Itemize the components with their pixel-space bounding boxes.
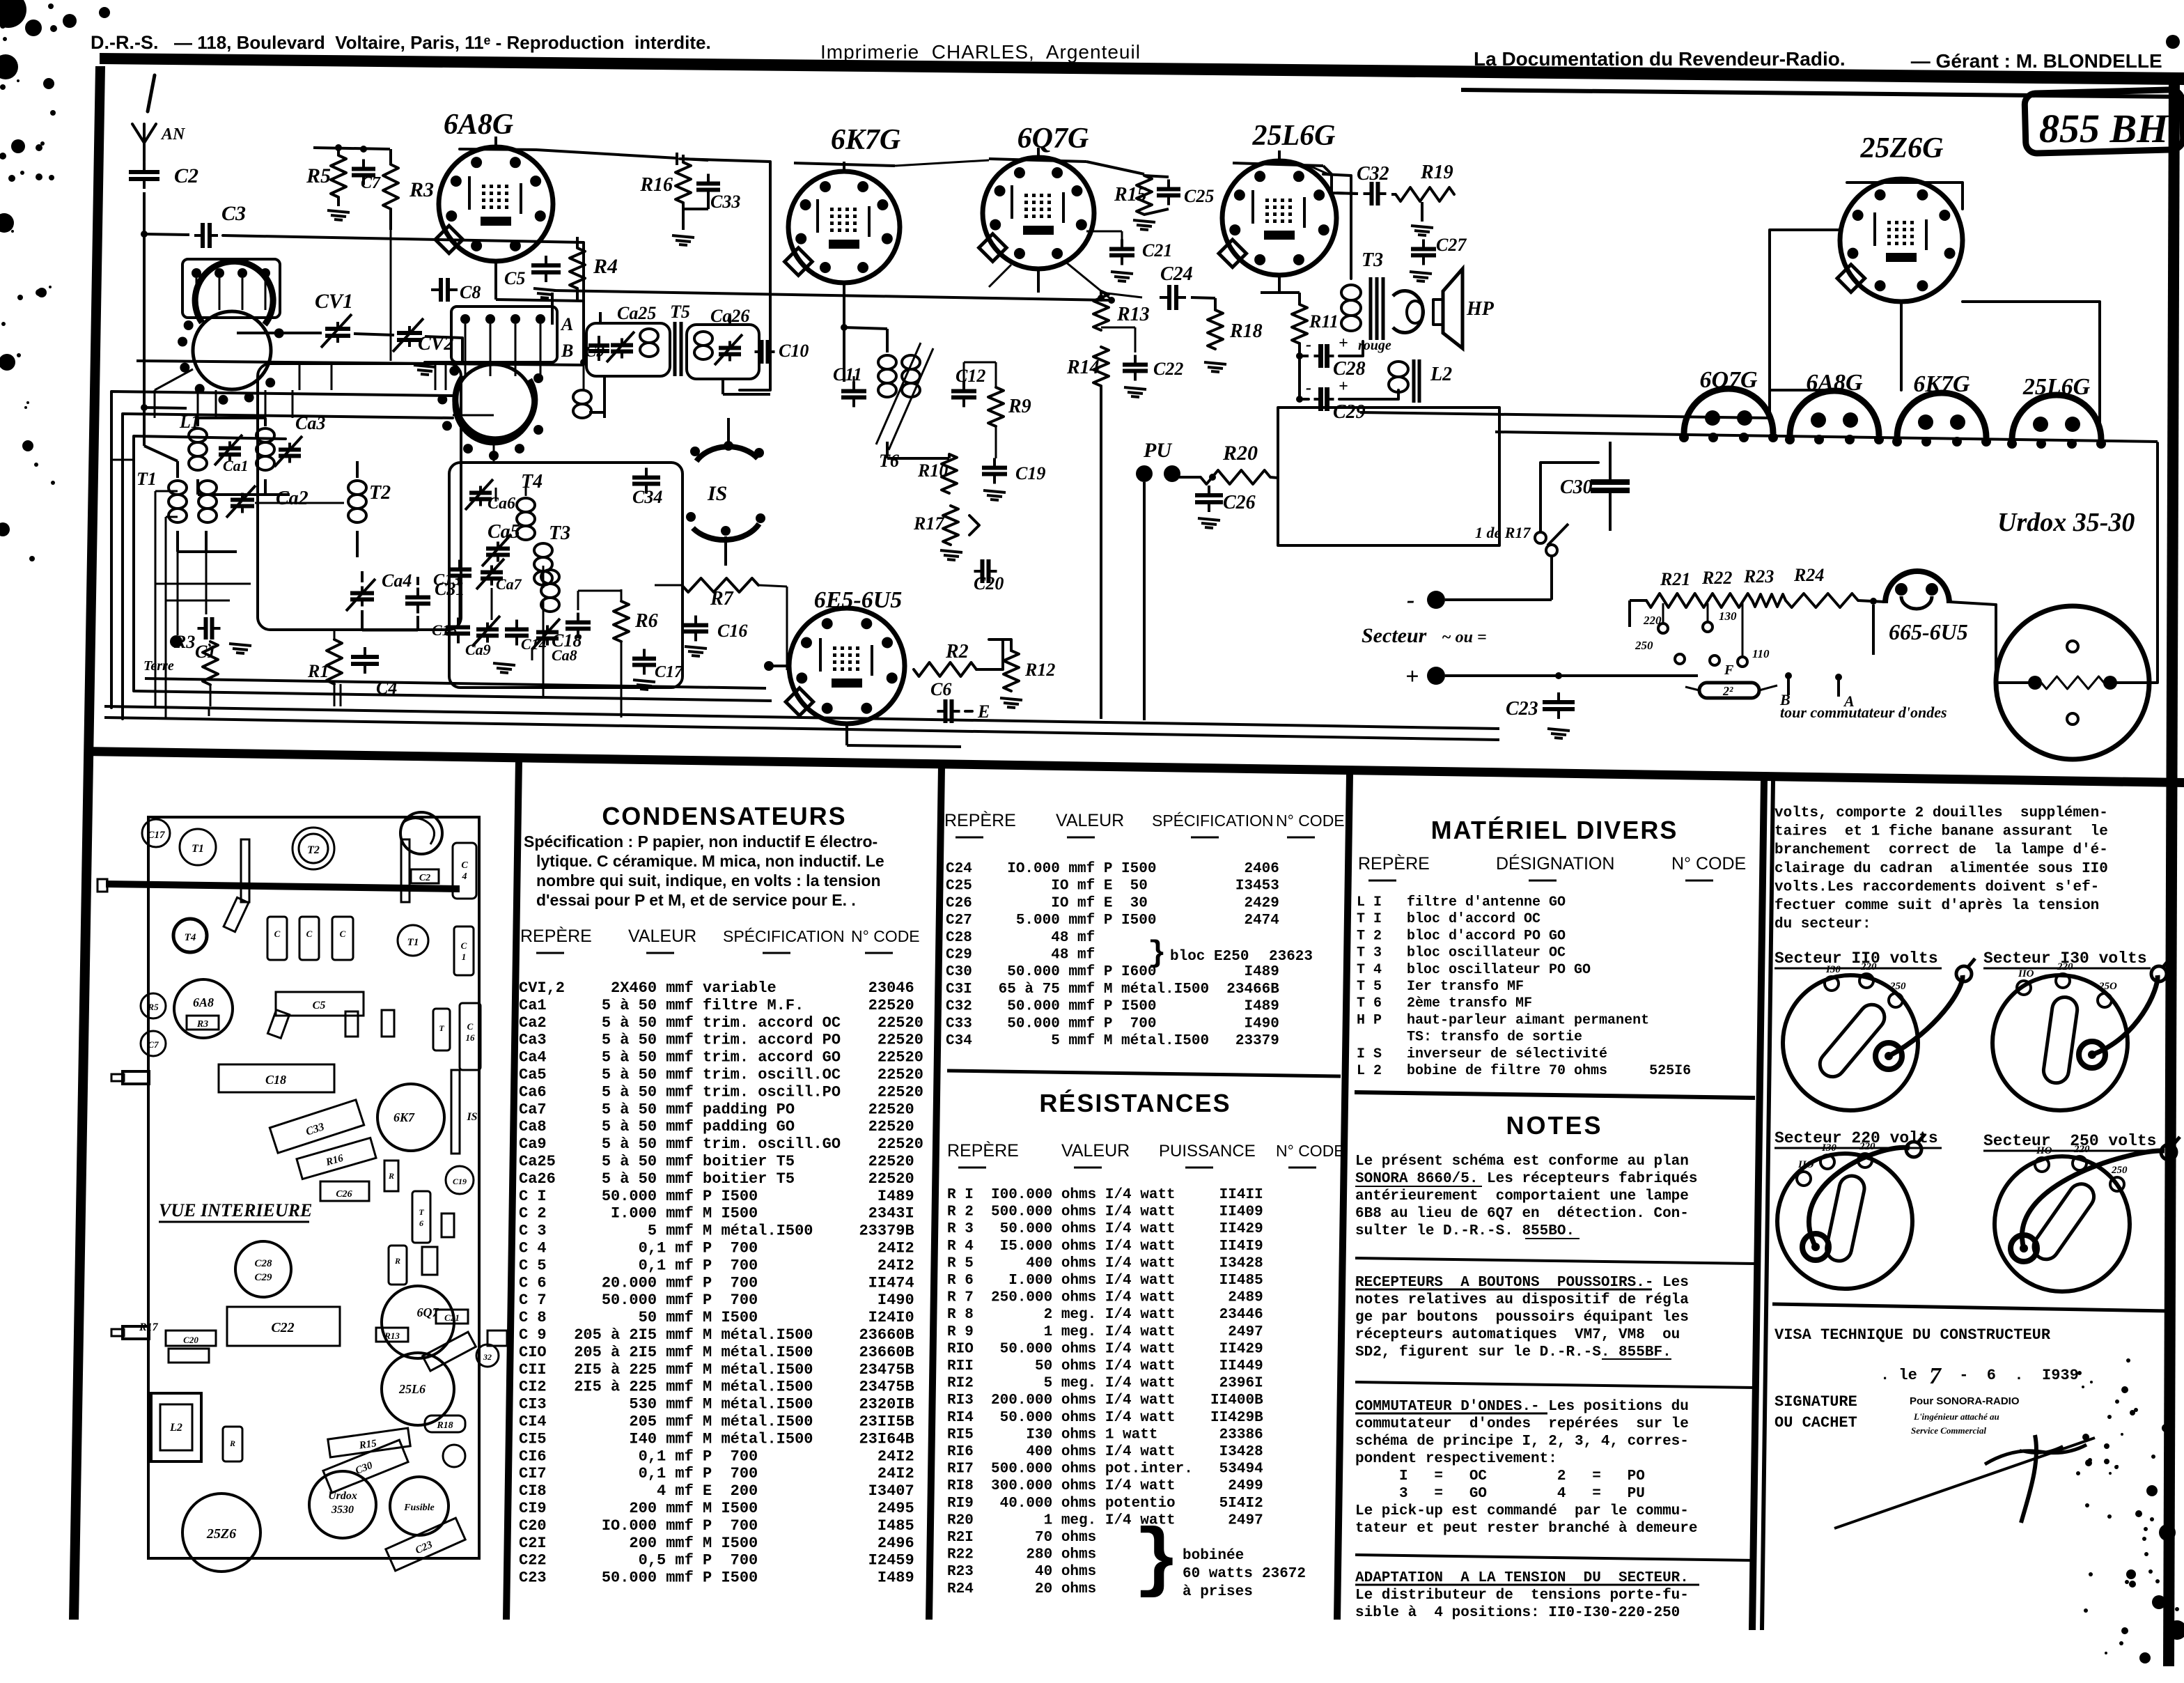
svg-text:C28: C28 — [1333, 358, 1366, 380]
svg-text:Ca7: Ca7 — [496, 575, 522, 593]
chassis box C15 — [332, 917, 353, 960]
svg-text:Ca26 5 à 50 mmf boitier T5: Ca26 5 à 50 mmf boitier T5 22520 — [519, 1170, 914, 1188]
svg-text:- 6 . I939: - 6 . I939 — [1950, 1367, 2079, 1384]
svg-text:220: 220 — [2057, 961, 2073, 972]
chassis circle T4 — [173, 919, 207, 952]
chassis circle R5 — [141, 993, 166, 1018]
chassis plug stub 2 — [123, 1326, 149, 1339]
svg-text:220: 220 — [1860, 961, 1877, 972]
tube 6E5-6U5 detector eye — [789, 608, 905, 724]
resistor R2 — [914, 662, 976, 676]
chassis circle CA small — [443, 1445, 465, 1467]
svg-text:C29: C29 — [254, 1272, 272, 1283]
svg-text:B: B — [561, 341, 573, 361]
chassis circle 6A8 — [174, 979, 233, 1038]
ground C26 — [1198, 518, 1220, 520]
svg-text:RI5 I30 ohms 1 watt: RI5 I30 ohms 1 watt 23386 — [947, 1427, 1263, 1443]
svg-text:C19: C19 — [1015, 463, 1045, 483]
tube 25Z6G — [1840, 179, 1963, 302]
chassis box R16 tilted — [297, 1138, 376, 1179]
svg-text:250: 250 — [1889, 981, 1906, 992]
svg-text:C26: C26 — [1223, 492, 1256, 513]
svg-text:CI7 0,1 mf P 700: CI7 0,1 mf P 700 24I2 — [519, 1465, 914, 1482]
wire B A down — [1872, 605, 1875, 655]
svg-text:commutateur d'ondes repérées: commutateur d'ondes repérées sur le — [1355, 1416, 1689, 1432]
svg-text:C30 50.000 mmf P I600: C30 50.000 mmf P I600 I489 — [946, 964, 1279, 980]
svg-text:CVI,2 2X460 mmf variable: CVI,2 2X460 mmf variable 23046 — [519, 979, 914, 997]
svg-text:16: 16 — [466, 1032, 476, 1043]
capacitor C32 — [1364, 192, 1372, 195]
wire L1 row top — [198, 417, 265, 419]
chassis plug stub 1 — [123, 1071, 149, 1084]
svg-text:taires et 1 fiche banane assu: taires et 1 fiche banane assurant le — [1774, 824, 2108, 840]
column divider 3 — [1334, 775, 1353, 1620]
ground R15 — [1133, 220, 1155, 222]
svg-text:C32: C32 — [1357, 163, 1389, 185]
svg-text:R3: R3 — [409, 178, 434, 201]
svg-text:DÉSIGNATION: DÉSIGNATION — [1496, 853, 1614, 874]
capacitor C15 — [457, 618, 460, 628]
svg-text:R3: R3 — [196, 1019, 208, 1030]
svg-text:T1: T1 — [407, 937, 419, 948]
svg-text:C18: C18 — [265, 1073, 286, 1087]
svg-text:C24 IO.000 mmf P I500: C24 IO.000 mmf P I500 2406 — [946, 861, 1279, 877]
ground C16 — [685, 646, 707, 649]
capacitor C13b — [458, 560, 461, 570]
svg-text:R19: R19 — [1420, 162, 1453, 183]
scan noise specks — [0, 0, 26, 28]
svg-text:C7: C7 — [148, 1039, 159, 1050]
output transformer T3 — [1341, 285, 1361, 300]
wire 6K7G grid cap — [843, 162, 845, 171]
resistor R14 — [1093, 347, 1109, 386]
wire C24 to R18 — [1191, 297, 1215, 298]
svg-text:Le distributeur de tensions p: Le distributeur de tensions porte-fu- — [1355, 1588, 1689, 1604]
svg-text:6A8G: 6A8G — [1806, 370, 1863, 396]
ground R5 — [327, 210, 350, 212]
capacitor C27 — [1422, 240, 1425, 249]
chassis circle T1b — [398, 925, 428, 956]
svg-text:REPÈRE: REPÈRE — [947, 1140, 1019, 1161]
svg-text:I S inverseur de sélectivité: I S inverseur de sélectivité — [1357, 1046, 1649, 1062]
dial secteur 250 volts — [1995, 1156, 2130, 1292]
svg-text:C 5 0,1 mf P 700: C 5 0,1 mf P 700 24I2 — [519, 1257, 914, 1274]
svg-text:C20: C20 — [974, 573, 1004, 594]
svg-text:C21: C21 — [1142, 240, 1172, 261]
svg-text:Ca1 5 à 50 mmf filtre M.F: Ca1 5 à 50 mmf filtre M.F. 22520 — [519, 997, 914, 1014]
svg-text:Le pick-up est commandé par l: Le pick-up est commandé par le commu- — [1355, 1503, 1689, 1519]
capacitor C6 — [937, 710, 946, 713]
dial bar — [106, 881, 460, 892]
IF transformer T5 box left — [586, 323, 670, 376]
svg-text:R4: R4 — [593, 255, 618, 278]
tube 6Q7G — [983, 157, 1094, 269]
svg-text:N° CODE: N° CODE — [1276, 1142, 1345, 1160]
svg-text:Urdox 35-30: Urdox 35-30 — [1997, 508, 2135, 537]
wire Ca4 leads — [361, 571, 364, 582]
svg-text:250: 250 — [2111, 1165, 2128, 1176]
svg-text:23672: 23672 — [1262, 1566, 1306, 1582]
wire lamp to urdox — [1949, 602, 1996, 605]
terminal minus — [1427, 591, 1445, 609]
rule notes 3 — [1355, 1555, 1755, 1560]
svg-text:d'essai pour P et M, et de ser: d'essai pour P et M, et de service pour … — [536, 891, 856, 909]
svg-text:R 6 I.000 ohms I/4 watt: R 6 I.000 ohms I/4 watt II485 — [947, 1273, 1263, 1289]
ground C17 — [633, 680, 655, 682]
wire left inner verticals — [155, 491, 157, 706]
ground padder — [493, 663, 515, 665]
wire C22 top — [1134, 327, 1137, 352]
svg-text:Ca1: Ca1 — [223, 457, 249, 474]
wire T6 bottom — [886, 442, 889, 458]
svg-text:SPÉCIFICATION: SPÉCIFICATION — [723, 927, 845, 945]
capacitor C4 — [364, 647, 366, 657]
svg-text:C3I 65 à 75 mmf M métal.I500: C3I 65 à 75 mmf M métal.I500 23466B — [946, 982, 1279, 998]
svg-text:RI9 40.000 ohms potentio: RI9 40.000 ohms potentio 5I4I2 — [947, 1496, 1263, 1512]
svg-text:R2: R2 — [945, 641, 969, 662]
wire bottom rail 2 — [104, 718, 1499, 740]
chassis box C5 — [276, 992, 364, 1016]
svg-text:C: C — [340, 929, 346, 939]
resistor R20 — [1201, 470, 1270, 484]
svg-text:N° CODE: N° CODE — [1276, 812, 1345, 830]
svg-text:~ ou =: ~ ou = — [1442, 628, 1487, 646]
chassis circle 25Z6 — [182, 1494, 260, 1572]
svg-text:L2: L2 — [1430, 364, 1452, 385]
svg-text:tateur et peut rester branché: tateur et peut rester branché à demeure — [1355, 1521, 1697, 1537]
wire sw1 left leads — [155, 369, 193, 390]
capacitor C28 electrolytic — [1314, 355, 1321, 357]
svg-text:C6: C6 — [930, 679, 951, 699]
chassis box R18 — [425, 1416, 465, 1432]
svg-text:T 6 2ème transfo MF: T 6 2ème transfo MF — [1357, 995, 1649, 1011]
svg-text:Spécification : P papier, non: Spécification : P papier, non inductif E… — [524, 832, 877, 851]
pilot lamp 6E5-6U5 — [1885, 571, 1949, 603]
svg-text:C25 IO mf E 50: C25 IO mf E 50 I3453 — [946, 878, 1279, 894]
svg-text:R18: R18 — [436, 1420, 453, 1431]
svg-text:REPÈRE: REPÈRE — [520, 926, 592, 946]
svg-text:E: E — [977, 701, 990, 722]
svg-text:volts.Les raccordements doiven: volts.Les raccordements doivent s'ef- — [1774, 879, 2099, 895]
svg-text:I = OC 2 = PO: I = OC 2 = PO — [1355, 1468, 1645, 1484]
coil with trimmer Ca3 — [256, 428, 274, 442]
svg-text:R6: R6 — [634, 610, 658, 632]
svg-text:CI5 I40 mmf M métal.I5: CI5 I40 mmf M métal.I500 23I64B — [519, 1430, 914, 1448]
svg-text:R22: R22 — [1701, 568, 1732, 588]
rule above resistances — [947, 1071, 1341, 1076]
svg-text:R10: R10 — [917, 460, 948, 481]
svg-text:-: - — [1407, 587, 1414, 613]
wire antenna down — [143, 192, 146, 446]
tube 25L6G — [1222, 161, 1336, 275]
wire loop rectangle — [1278, 408, 1499, 545]
svg-text:C21: C21 — [444, 1312, 460, 1323]
svg-text:C26: C26 — [336, 1189, 352, 1200]
svg-text:-: - — [1306, 336, 1311, 354]
svg-text:+: + — [1339, 378, 1348, 396]
resistor R7 — [682, 578, 758, 592]
svg-text:MATÉRIEL DIVERS: MATÉRIEL DIVERS — [1431, 816, 1678, 844]
svg-text:1: 1 — [462, 952, 467, 962]
svg-text:R20 1 meg. I/4 watt: R20 1 meg. I/4 watt 2497 — [947, 1512, 1263, 1528]
rule notes 1 — [1355, 1258, 1755, 1264]
wire minus — [1445, 598, 1552, 601]
ground R16 — [672, 235, 694, 238]
svg-text:C: C — [461, 940, 467, 951]
wire C1 R3 stack — [209, 644, 210, 646]
svg-text:6: 6 — [419, 1218, 423, 1228]
svg-text:R 3 50.000 ohms I/4 watt: R 3 50.000 ohms I/4 watt II429 — [947, 1221, 1263, 1237]
svg-text:ge par boutons poussoirs équi: ge par boutons poussoirs équipant les — [1355, 1310, 1689, 1326]
svg-text:RÉSISTANCES: RÉSISTANCES — [1039, 1089, 1231, 1117]
wire CV row — [237, 332, 322, 334]
wire urdox — [1996, 605, 2035, 683]
svg-text:130: 130 — [1719, 610, 1737, 623]
svg-text:Ca5 5 à 50 mmf trim. osci: Ca5 5 à 50 mmf trim. oscill.OC 22520 — [519, 1067, 923, 1084]
chassis box C30 tilted — [323, 1440, 408, 1493]
svg-text:C34 5 mmf M métal.I500: C34 5 mmf M métal.I500 23379 — [946, 1033, 1279, 1049]
wire y596 stub — [453, 414, 494, 417]
svg-text:Ca25: Ca25 — [617, 303, 656, 323]
svg-text:IS: IS — [466, 1111, 477, 1123]
svg-text:110: 110 — [1752, 647, 1770, 660]
trimmer in T5 — [621, 339, 623, 346]
ground C1 — [229, 644, 251, 646]
svg-text:T5: T5 — [670, 302, 690, 322]
resistor R18 — [1208, 310, 1223, 349]
svg-text:Ca7 5 à 50 mmf padding PO: Ca7 5 à 50 mmf padding PO 22520 — [519, 1101, 914, 1118]
svg-text:32: 32 — [483, 1352, 492, 1362]
chassis box R10 — [389, 1246, 407, 1285]
svg-text:N° CODE: N° CODE — [851, 927, 920, 945]
resistor chain R21 R22 R23 R24 — [1646, 594, 1699, 607]
svg-text:I30: I30 — [1821, 1142, 1836, 1154]
trimmer Ca2 — [241, 493, 244, 500]
svg-text:IIO: IIO — [2036, 1145, 2052, 1156]
wire T2 leads — [356, 461, 359, 478]
svg-text:C17: C17 — [655, 663, 683, 681]
svg-text:C23: C23 — [1506, 698, 1538, 720]
svg-text:R15: R15 — [1114, 184, 1147, 205]
top rule echo right — [1461, 88, 2184, 99]
svg-text:Ca6: Ca6 — [487, 495, 515, 513]
wire T1 bottom — [176, 531, 179, 552]
capacitor C14 — [515, 620, 518, 630]
wire 6A8 to IF — [494, 261, 497, 300]
wire R9 C19 — [995, 426, 997, 458]
svg-text:6K7G: 6K7G — [1913, 371, 1970, 397]
ground C22 — [1124, 387, 1146, 389]
trimmer CV2 — [408, 326, 411, 333]
capacitor C30 — [1609, 468, 1612, 482]
svg-text:T I bloc d'accord OC: T I bloc d'accord OC — [1357, 911, 1649, 927]
chassis circle urdox — [309, 1471, 376, 1538]
wire antenna sw1 — [144, 408, 187, 408]
wire R1 leads — [334, 630, 336, 639]
svg-text:R9: R9 — [1008, 396, 1031, 417]
capacitor C8 — [431, 288, 441, 291]
svg-text:bobinée: bobinée — [1183, 1548, 1244, 1564]
svg-text:C17: C17 — [147, 830, 165, 841]
capacitor C34 — [645, 468, 648, 478]
chassis box C22 — [227, 1307, 340, 1346]
svg-text:C5: C5 — [313, 1000, 326, 1011]
capacitor C26 electrolytic — [1208, 486, 1210, 495]
wire R20 — [1172, 476, 1201, 479]
svg-text:Secteur: Secteur — [1362, 624, 1427, 647]
ground R17 — [940, 550, 962, 552]
svg-text:C11: C11 — [833, 364, 862, 385]
column divider 4 — [1749, 780, 1768, 1630]
coil under T5 — [573, 390, 591, 404]
trimmer Ca7 — [490, 566, 493, 573]
resistor R11 — [1292, 304, 1307, 343]
svg-text:branchement correct de la la: branchement correct de la lampe d'é- — [1774, 842, 2108, 858]
rule notes 2 — [1355, 1382, 1755, 1388]
wire y520 rail — [136, 361, 584, 365]
capacitor C2 — [143, 162, 146, 172]
svg-text:C5: C5 — [504, 268, 525, 288]
svg-text:23623: 23623 — [1269, 949, 1313, 965]
svg-text:}: } — [1148, 936, 1166, 971]
svg-text:volts, comporte 2 douilles su: volts, comporte 2 douilles supplémen- — [1774, 805, 2108, 821]
wire vertical 1106 — [680, 159, 770, 390]
resistor R5 — [331, 155, 346, 197]
trimmer Ca1 — [228, 442, 231, 449]
antenna AN — [132, 124, 144, 162]
svg-text:PUISSANCE: PUISSANCE — [1159, 1142, 1256, 1161]
svg-text:VISA TECHNIQUE DU CONSTRUCTEUR: VISA TECHNIQUE DU CONSTRUCTEUR — [1774, 1326, 2051, 1344]
capacitor C33 — [707, 174, 710, 184]
svg-text:SPÉCIFICATION: SPÉCIFICATION — [1152, 812, 1274, 830]
ground C21 — [1111, 272, 1133, 274]
resistor R16 — [676, 162, 691, 203]
svg-text:Ca25 5 à 50 mmf boitier T5: Ca25 5 à 50 mmf boitier T5 22520 — [519, 1153, 914, 1170]
chassis circle C7 — [141, 1031, 166, 1056]
wire C3 to 6A8G grid — [223, 235, 584, 362]
capacitor C1 — [198, 627, 206, 630]
capacitor C11 — [852, 382, 855, 391]
svg-text:C 8 50 mmf M I500: C 8 50 mmf M I500 I24I0 — [519, 1309, 914, 1326]
svg-text:6B8 au lieu de 6Q7 en détecti: 6B8 au lieu de 6Q7 en détection. Con- — [1355, 1206, 1689, 1222]
svg-text:D.-R.-S.: D.-R.-S. — [91, 32, 159, 53]
svg-text:R24: R24 — [1793, 565, 1824, 585]
wire R6 leads — [621, 589, 623, 601]
resistor R12 — [1004, 651, 1019, 691]
chassis outline — [148, 817, 479, 1558]
chassis box T5C16 — [460, 1003, 481, 1070]
oscillator trimmer Ca6 — [479, 486, 482, 493]
svg-text:IS: IS — [707, 482, 727, 505]
svg-text:C: C — [306, 929, 313, 939]
svg-text:6K7G: 6K7G — [831, 124, 900, 156]
svg-text:C32 50.000 mmf P I500: C32 50.000 mmf P I500 I489 — [946, 999, 1279, 1015]
wire y660 short — [111, 459, 134, 461]
svg-text:C 4 0,1 mf P 700: C 4 0,1 mf P 700 24I2 — [519, 1240, 914, 1257]
ground C5 — [533, 288, 556, 290]
svg-text:CV1: CV1 — [315, 290, 353, 313]
svg-text:R11: R11 — [1309, 311, 1339, 332]
svg-text:R12: R12 — [1024, 660, 1055, 680]
svg-text:R: R — [388, 1171, 394, 1181]
svg-text:T 5 Ier transfo MF: T 5 Ier transfo MF — [1357, 979, 1649, 995]
svg-text:C23 50.000 mmf P I500: C23 50.000 mmf P I500 I489 — [519, 1569, 914, 1587]
terminal plus — [1427, 667, 1445, 685]
svg-text:T: T — [419, 1207, 424, 1217]
svg-text:C28: C28 — [254, 1258, 272, 1269]
ground R18 — [1204, 362, 1226, 364]
capacitor C24 — [1160, 296, 1169, 299]
svg-text:C18: C18 — [552, 630, 582, 651]
svg-text:notes relatives au dispositif: notes relatives au dispositif de régla — [1355, 1292, 1689, 1308]
svg-text:I30: I30 — [1825, 964, 1841, 975]
svg-text:R1: R1 — [307, 661, 329, 681]
svg-text:25Z6G: 25Z6G — [1860, 132, 1944, 164]
svg-text:CII 2I5 à 225 mmf M métal.I5: CII 2I5 à 225 mmf M métal.I500 23475B — [519, 1361, 914, 1379]
svg-text:C3: C3 — [221, 202, 246, 225]
coil L1 — [189, 428, 207, 442]
capacitor C16 — [694, 616, 697, 626]
page mark 1 (hand) — [148, 75, 155, 111]
chassis box C33 tilted — [270, 1100, 364, 1153]
chassis slat 2 — [401, 839, 409, 902]
wire bottom rail 4 — [145, 678, 766, 688]
wire R13 top to C24 — [1101, 293, 1142, 297]
capacitor C9 — [598, 336, 600, 346]
wire 25Z6G box — [1770, 230, 1840, 418]
svg-text:25L6G: 25L6G — [2022, 374, 2091, 400]
svg-text:Ca2: Ca2 — [276, 488, 309, 509]
resistor R10 — [942, 454, 957, 493]
wire R5 C7 top — [313, 148, 390, 149]
wire 25L6G grid cap — [1278, 150, 1281, 161]
svg-text:Ca8 5 à 50 mmf padding GO: Ca8 5 à 50 mmf padding GO 22520 — [519, 1118, 914, 1135]
svg-text:T2: T2 — [369, 482, 391, 504]
resistor R1 — [327, 639, 342, 684]
svg-text:C12: C12 — [955, 366, 985, 386]
svg-text:C 2 I.000 mmf M I500: C 2 I.000 mmf M I500 2343I — [519, 1205, 914, 1223]
svg-text:RI4 50.000 ohms I/4 watt: RI4 50.000 ohms I/4 watt II429B — [947, 1410, 1263, 1426]
chassis slat 1 — [241, 839, 249, 902]
svg-text:SD2, figurent sur le D.-R.-S.: SD2, figurent sur le D.-R.-S. 855BF. — [1355, 1344, 1671, 1360]
svg-text:C I 50.000 mmf P I500: C I 50.000 mmf P I500 I489 — [519, 1188, 914, 1205]
svg-text:220: 220 — [1859, 1141, 1875, 1152]
svg-text:60 watts: 60 watts — [1183, 1566, 1253, 1582]
chassis small diag — [224, 897, 249, 931]
wire bottom rail 3 — [134, 691, 772, 701]
capacitor C29 electrolytic — [1314, 398, 1321, 401]
oscillator coil T4 — [517, 498, 535, 512]
capacitor C18 — [577, 613, 579, 623]
svg-text:C13: C13 — [433, 571, 461, 589]
svg-text:3530: 3530 — [331, 1504, 354, 1516]
svg-text:RI3 200.000 ohms I/4 watt: RI3 200.000 ohms I/4 watt II400B — [947, 1393, 1263, 1409]
svg-text:R17: R17 — [913, 513, 944, 534]
speaker HP — [1393, 291, 1423, 333]
svg-text:CONDENSATEURS: CONDENSATEURS — [602, 802, 846, 830]
svg-text:R23: R23 — [1743, 566, 1774, 587]
chassis box C13 — [267, 917, 287, 960]
chassis circle 6Q7 — [382, 1286, 454, 1358]
wire IF tops — [599, 312, 602, 323]
svg-text:AN: AN — [160, 125, 186, 144]
wire top tie 6K7 6Q7 — [895, 160, 989, 166]
svg-text:Service Commercial: Service Commercial — [1911, 1425, 1986, 1436]
capacitor C5 — [545, 256, 547, 265]
wire 25L6 plate to T3 — [1323, 174, 1351, 279]
svg-text:C2I 200 mmf M I500: C2I 200 mmf M I500 2496 — [519, 1535, 914, 1552]
svg-text:antérieurement comportaient u: antérieurement comportaient une lampe — [1355, 1188, 1689, 1204]
